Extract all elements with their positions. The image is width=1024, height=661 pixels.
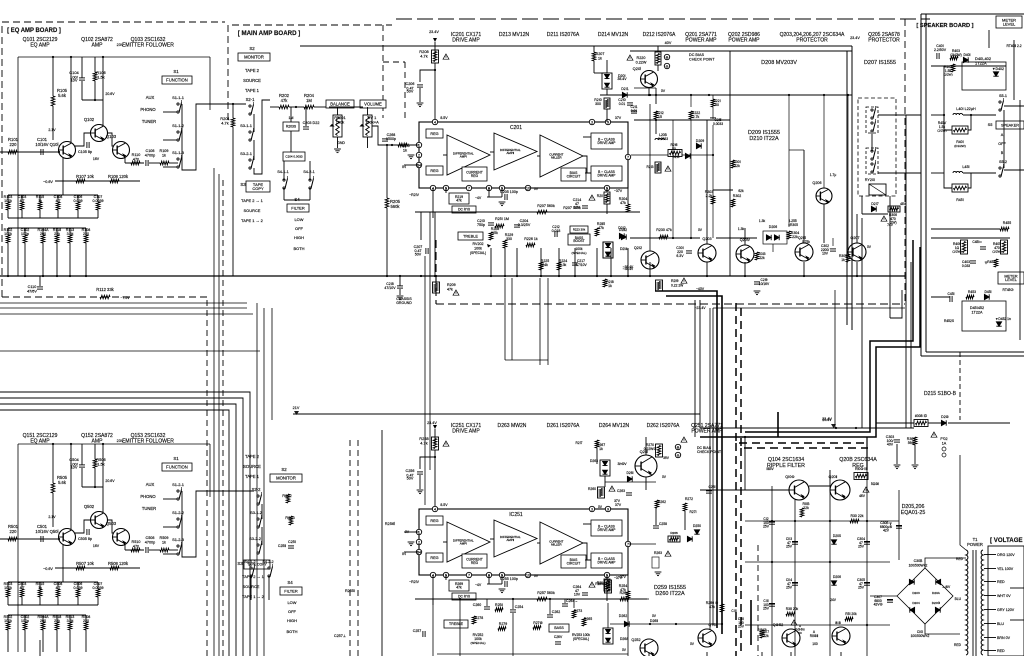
capacitor C304: [864, 542, 870, 544]
wire dashed x758: [757, 545, 759, 656]
svg-text:−4V: −4V: [475, 583, 482, 587]
svg-text:2: 2: [418, 540, 420, 544]
transistor Q206: [816, 188, 832, 204]
svg-text:1T22A: 1T22A: [971, 310, 983, 314]
wire jog: [890, 290, 902, 318]
wire 21V bus: [293, 413, 700, 415]
pin 14: [416, 162, 421, 167]
svg-text:R26A: R26A: [620, 591, 629, 595]
svg-text:[ VOLTAGE: [ VOLTAGE: [990, 537, 1023, 544]
wire: [77, 597, 79, 605]
svg-text:R230 47k: R230 47k: [656, 228, 672, 232]
junction: [712, 154, 714, 156]
wire EQ right rail: [209, 444, 211, 497]
wire: [606, 89, 608, 95]
junction: [627, 275, 629, 277]
svg-text:16V: 16V: [93, 544, 100, 548]
svg-text:47/6V: 47/6V: [27, 289, 37, 293]
wire: [432, 188, 434, 218]
wire: [62, 181, 64, 195]
resistor R273: [572, 610, 576, 618]
wire to bus: [856, 262, 858, 276]
svg-text:POWER AMP: POWER AMP: [728, 38, 760, 44]
capacitor C306: [896, 526, 902, 528]
svg-text:25V: 25V: [858, 586, 865, 590]
svg-text:D20③: D20③: [932, 601, 941, 605]
svg-text:BOOST: BOOST: [573, 239, 584, 243]
wire tap: [984, 637, 996, 639]
switch S3-1-2: [257, 515, 262, 528]
svg-text:1k: 1k: [162, 153, 166, 157]
resistor R215: [595, 228, 599, 236]
resistor/cap C106 0.039: [76, 202, 80, 210]
junction: [596, 275, 598, 277]
label DC RY box: [452, 206, 476, 213]
resistor R211: [604, 192, 610, 204]
svg-text:R5Ⅰ 20k: R5Ⅰ 20k: [845, 612, 857, 616]
wire: [490, 151, 494, 153]
svg-text:S4-2-1: S4-2-1: [303, 170, 315, 174]
diode D401: [963, 57, 968, 62]
transistor Q101: [59, 142, 76, 159]
IC251 b-class drive amp top: [591, 520, 622, 536]
ground C256: [417, 490, 424, 494]
svg-text:(SPECIAL): (SPECIAL): [470, 641, 485, 645]
resistor R455: [1000, 227, 1009, 231]
wire: [57, 195, 59, 202]
wire: [97, 210, 99, 218]
wire EQ left rail: [17, 57, 19, 276]
svg-text:(SPECIAL): (SPECIAL): [470, 251, 486, 255]
wire EQ top rail: [18, 56, 210, 58]
junction: [708, 94, 710, 96]
wire: [367, 107, 369, 115]
svg-text:D262: D262: [619, 614, 627, 618]
svg-text:D211 IS2076A: D211 IS2076A: [547, 32, 580, 38]
transistor Q104: [789, 480, 809, 500]
resistor R269: [605, 580, 612, 593]
transistor Q751: [832, 627, 850, 645]
wire: [69, 630, 71, 652]
wire: [69, 243, 71, 276]
svg-text:1A: 1A: [942, 441, 947, 445]
IC201 REG box top: [426, 129, 443, 138]
svg-text:WHT 0V: WHT 0V: [997, 594, 1011, 598]
junction: [847, 94, 849, 96]
wire Q02 emitter up: [102, 57, 104, 125]
wire: [931, 296, 950, 298]
wire bus h: [0, 410, 229, 656]
svg-text:POWER AMP: POWER AMP: [691, 429, 723, 435]
wire Q104-Q208: [809, 485, 830, 487]
wire bus c: [0, 313, 253, 315]
svg-text:25V: 25V: [858, 545, 865, 549]
svg-text:S4: S4: [294, 197, 300, 202]
pin 7: [625, 154, 630, 159]
junction: [690, 94, 692, 96]
svg-text:MILLER: MILLER: [551, 155, 561, 159]
junction: [94, 486, 96, 488]
junction: [794, 520, 796, 522]
wire EQ top rail: [18, 443, 210, 445]
svg-text:8.5V: 8.5V: [440, 116, 448, 120]
resistor R206: [398, 143, 407, 147]
svg-text:POWER: POWER: [967, 542, 983, 547]
svg-text:R226 1k: R226 1k: [524, 237, 538, 241]
wire Q01 emitter down: [62, 545, 64, 568]
wire right edge b: [1019, 100, 1021, 340]
wire thick x751: [750, 600, 752, 645]
junction: [42, 275, 44, 277]
resistor R403: [950, 56, 958, 60]
diode D402b: [993, 72, 998, 76]
capacitor C401: [937, 53, 939, 59]
wire bus f: [0, 398, 243, 656]
svg-text:560k: 560k: [390, 204, 400, 209]
ground C303: [894, 465, 901, 469]
wire psu drop x867: [866, 437, 868, 470]
ground R263: [655, 572, 662, 576]
svg-text:3: 3: [591, 120, 593, 124]
svg-text:D263 MW2N: D263 MW2N: [498, 423, 527, 429]
resistor/cap R103 100k: [6, 202, 10, 210]
wire: [42, 228, 44, 235]
transistor Q501: [59, 529, 76, 546]
svg-text:C260: C260: [473, 603, 481, 607]
svg-text:0.039: 0.039: [73, 586, 82, 590]
svg-text:RED: RED: [954, 643, 962, 647]
wire thick speaker return b: [700, 247, 920, 437]
resistor R263 box: [652, 557, 659, 568]
svg-text:RY20Ⅰ: RY20Ⅰ: [865, 178, 875, 182]
svg-text:−0.6V: −0.6V: [43, 567, 53, 571]
wire to contact: [163, 553, 177, 555]
wire pin7 link b: [682, 154, 713, 156]
svg-text:R2Ⅰ9: R2Ⅰ9: [671, 279, 679, 283]
wire bridge top to T1: [925, 558, 966, 568]
svg-text:(2W): (2W): [889, 221, 896, 225]
svg-text:L40Ⅰ L22μH: L40Ⅰ L22μH: [956, 107, 976, 111]
IC201 current miller: [540, 135, 583, 177]
svg-text:Q20Ⅰ: Q20Ⅰ: [633, 66, 642, 71]
capacitor C215: [710, 118, 716, 120]
resistor/cap R518 22k: [55, 622, 59, 630]
wire input to S2: [210, 103, 246, 105]
wire vertical x713: [712, 308, 714, 625]
resistor R451: [952, 184, 968, 192]
warning mark: [881, 216, 887, 221]
IC201 b-class drive amp top: [591, 133, 622, 149]
resistor R225: [539, 262, 543, 270]
svg-text:C205 100p: C205 100p: [500, 190, 518, 194]
transistor Q203: [698, 244, 716, 262]
wire R290 up: [721, 580, 723, 604]
svg-text:S1: S1: [173, 69, 179, 74]
resistor R307: [913, 437, 917, 445]
wire x565 down: [564, 599, 566, 603]
wire: [21, 195, 23, 202]
wire voltage out a: [1010, 587, 1024, 589]
svg-text:TAPE 2 → 1: TAPE 2 → 1: [242, 574, 264, 579]
svg-text:IN: IN: [402, 165, 406, 169]
svg-text:ⅠⅠ0: ⅠⅠ0: [798, 631, 802, 635]
wire: [268, 576, 270, 600]
svg-text:47k: 47k: [447, 287, 453, 291]
diode pack D206: [763, 231, 787, 244]
resistor R209 47k: [433, 282, 440, 293]
capacitor C251: [288, 546, 294, 548]
speaker board border bottom a: [926, 351, 1024, 353]
wire: [270, 106, 279, 108]
wire: [443, 541, 447, 543]
junction: [386, 275, 388, 277]
wire R201 down: [232, 127, 234, 276]
svg-text:S1-1-3: S1-1-3: [172, 150, 185, 155]
svg-text:−R2ⅠV: −R2ⅠV: [409, 580, 420, 584]
speaker board border inner: [925, 14, 927, 352]
svg-text:C262: C262: [552, 610, 560, 614]
capacitor C210b: [627, 103, 633, 105]
wire: [537, 542, 540, 544]
wire x460 down: [459, 599, 461, 656]
EQ AMP board border bottom: [2, 296, 207, 298]
capacitor C254: [510, 610, 516, 612]
wire x513 down2: [512, 613, 514, 656]
wire: [289, 106, 304, 108]
terminal check +: [664, 54, 669, 59]
warning mark: [791, 620, 797, 625]
svg-text:BALANCE: BALANCE: [330, 101, 350, 106]
svg-text:R453: R453: [968, 290, 976, 294]
svg-text:AUX: AUX: [146, 95, 155, 100]
wire Q02-Q03: [107, 133, 113, 146]
wire: [432, 575, 434, 605]
wire vertical x425: [424, 256, 426, 505]
resistor R229: [503, 240, 507, 248]
svg-text:1.3k: 1.3k: [738, 227, 745, 231]
capacitor C207: [426, 248, 428, 254]
wire S1 common: [181, 491, 183, 554]
junction: [771, 520, 773, 522]
wire 0V line: [600, 94, 852, 96]
wire: [7, 582, 9, 589]
wire 120 rail: [634, 119, 730, 121]
svg-text:R45Ⅰ: R45Ⅰ: [956, 198, 964, 202]
wire: [309, 188, 311, 200]
resistor R257: [537, 597, 547, 601]
junction: [58, 538, 60, 540]
wire R290 down: [721, 612, 723, 624]
junction: [102, 443, 104, 445]
resistor R252: [286, 494, 290, 503]
svg-text:AMPⅠ: AMPⅠ: [460, 154, 467, 158]
resistor R301: [731, 160, 735, 168]
svg-text:D2Ⅰ4: D2Ⅰ4: [620, 247, 628, 251]
diode D206b: [774, 235, 779, 240]
svg-text:−R2ⅠV: −R2ⅠV: [409, 193, 420, 197]
svg-text:DRIVE AMP: DRIVE AMP: [598, 560, 617, 564]
wire bottom: [706, 652, 708, 656]
wire Q251 collector: [645, 437, 647, 455]
wire to bus: [627, 248, 629, 275]
svg-text:4: 4: [434, 120, 436, 124]
junction: [540, 275, 542, 277]
svg-text:4.7k: 4.7k: [221, 121, 228, 126]
node 23.4V arrow: [433, 425, 437, 429]
capacitor C302: [830, 249, 836, 251]
svg-text:40V: 40V: [665, 41, 672, 45]
wire: [7, 597, 9, 605]
potentiometer RV1: [361, 115, 373, 137]
resistor R305: [846, 254, 850, 262]
svg-text:22k: 22k: [803, 506, 809, 510]
capacitor C114: [792, 583, 798, 585]
svg-text:MILLER: MILLER: [551, 542, 561, 546]
wire lattice x773: [772, 244, 774, 252]
wire L401 R401 a: [944, 115, 952, 130]
wire feedback bottom: [8, 217, 98, 219]
diode D215b: [941, 420, 946, 425]
resistor R109 1k: [160, 161, 169, 165]
svg-text:37V: 37V: [615, 116, 622, 120]
svg-text:R203S: R203S: [286, 125, 297, 129]
switch S1-1-1: [177, 100, 182, 113]
svg-text:100p: 100p: [21, 619, 29, 623]
resistor R510 470: [131, 548, 140, 552]
wire Q202 collector up: [649, 104, 651, 251]
svg-text:D206: D206: [769, 225, 777, 229]
svg-text:DRIVE AMP: DRIVE AMP: [598, 173, 617, 177]
junction: [52, 56, 54, 58]
junction: [69, 275, 71, 277]
wire dashed column x350: [349, 440, 351, 656]
warning mark: [681, 278, 687, 283]
svg-text:BOTH: BOTH: [287, 629, 298, 634]
svg-text:REG: REG: [430, 556, 438, 560]
junction: [52, 443, 54, 445]
svg-text:Q2Ⅰ2: Q2Ⅰ2: [634, 246, 642, 250]
junction: [744, 275, 746, 277]
resistor R101 220: [8, 150, 17, 154]
svg-text:D215 S1BO-B: D215 S1BO-B: [924, 391, 957, 397]
wire: [7, 615, 9, 622]
wire: [488, 575, 490, 584]
svg-text:25V: 25V: [763, 525, 770, 529]
capacitor C263: [626, 493, 632, 495]
switch S3 box ch2: [244, 560, 270, 569]
svg-text:47k: 47k: [620, 201, 626, 205]
wire fuse row a: [876, 422, 914, 424]
wire bridge bottom: [925, 624, 960, 634]
wire lattice x833: [832, 238, 834, 246]
svg-text:20.6V: 20.6V: [105, 92, 115, 96]
svg-text:10/16V: 10/16V: [35, 529, 48, 534]
diode D451: [984, 294, 989, 299]
relay contact 2: [866, 148, 878, 174]
svg-text:⊖: ⊖: [665, 64, 668, 68]
wire: [928, 422, 941, 424]
wire vertical x540: [539, 278, 541, 365]
wire link x505-548: [505, 359, 548, 361]
wire S5-2 out: [1004, 169, 1024, 171]
wire: [149, 549, 160, 551]
MAIN AMP board border inner dash: [382, 25, 384, 118]
wire row2 top: [8, 227, 86, 229]
junction: [434, 456, 436, 458]
svg-text:2.2/50V: 2.2/50V: [934, 48, 947, 52]
IC201 bias circuit box: [561, 168, 586, 181]
control BALANCE box: [326, 100, 354, 108]
wire: [125, 162, 144, 164]
svg-text:C257⊥: C257⊥: [334, 634, 347, 638]
svg-text:0.75k: 0.75k: [802, 240, 810, 244]
svg-text:D264 MV12N: D264 MV12N: [599, 423, 630, 429]
switch S4-2-1: [309, 176, 314, 189]
resistor R222: [689, 111, 693, 119]
wire relay bottom: [862, 213, 888, 215]
svg-text:1.5k: 1.5k: [97, 462, 104, 467]
svg-text:R30 22k: R30 22k: [850, 514, 863, 518]
pin 6: [486, 185, 491, 190]
svg-text:220: 220: [83, 232, 89, 236]
resistor R501 220: [8, 537, 17, 541]
resistor/cap C502 100p: [23, 622, 27, 630]
wire: [583, 543, 591, 560]
svg-text:D2Ⅰ0: D2Ⅰ0: [672, 155, 679, 159]
svg-text:⊕: ⊕: [676, 445, 679, 449]
resistor R26A: [620, 597, 629, 601]
wire bottom: [840, 652, 842, 656]
svg-text:BLU: BLU: [997, 622, 1004, 626]
pin 4: [432, 506, 437, 511]
wire to contact: [163, 166, 177, 168]
transistor Q201: [641, 71, 658, 88]
svg-text:1k: 1k: [38, 199, 42, 203]
wire: [606, 575, 608, 579]
wire lattice x709a: [712, 95, 714, 99]
meter frame top: [962, 62, 1006, 90]
IC251 REG box top: [426, 516, 443, 525]
wire 0V in: [404, 144, 419, 146]
svg-text:S1-1-1: S1-1-1: [172, 95, 184, 100]
warning mark: [627, 55, 633, 60]
svg-text:FUNCTION: FUNCTION: [166, 77, 188, 82]
warning mark: [443, 54, 449, 59]
pin 5: [604, 572, 609, 577]
wire meter rail: [931, 237, 1010, 239]
diode pack D214: [603, 242, 613, 258]
capacitor C451b: [980, 247, 986, 249]
wire bottom: [648, 652, 650, 656]
wire vertical x906 lower: [905, 290, 907, 428]
svg-text:100k: 100k: [4, 232, 12, 236]
wire: [39, 276, 41, 286]
svg-text:DRIVE AMP: DRIVE AMP: [452, 429, 480, 435]
svg-text:−0.6V: −0.6V: [43, 180, 53, 184]
resistor R260 0.22: [598, 487, 605, 498]
svg-text:220: 220: [83, 619, 89, 623]
wire vertical x548: [547, 278, 549, 365]
transistor Q502: [91, 512, 108, 529]
svg-text:LOW: LOW: [287, 600, 296, 605]
resistor R266: [668, 536, 680, 542]
diode D205: [831, 540, 836, 544]
wire tap: [984, 595, 996, 597]
wire Q01 collector: [70, 444, 72, 529]
speaker board border outer: [920, 14, 922, 356]
junction: [459, 598, 461, 600]
svg-text:[ MAIN AMP BOARD ]: [ MAIN AMP BOARD ]: [238, 30, 301, 37]
